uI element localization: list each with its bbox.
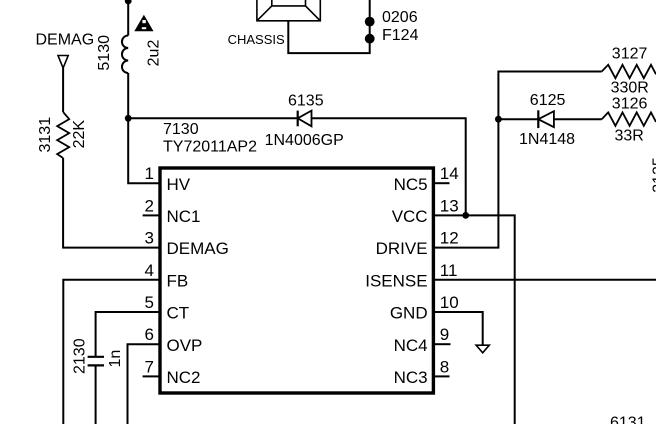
svg-text:10: 10 [440, 293, 459, 312]
inductor L5130 [122, 36, 128, 74]
svg-text:6: 6 [145, 325, 154, 344]
wire chassis to terminal line [288, 0, 369, 53]
svg-text:2130: 2130 [72, 338, 89, 374]
wire capacitor bottom to edge [95, 366, 97, 424]
svg-text:DEMAG: DEMAG [36, 32, 95, 49]
svg-text:11: 11 [440, 261, 458, 280]
wire DRIVE pin 12 up and right to resistor 3127 [435, 72, 602, 248]
svg-text:OVP: OVP [167, 336, 203, 355]
capacitor C2130 [88, 357, 104, 366]
svg-text:6135: 6135 [288, 93, 324, 110]
svg-text:VCC: VCC [392, 207, 428, 226]
svg-text:4: 4 [145, 261, 154, 280]
svg-text:NC2: NC2 [167, 368, 201, 387]
wire junction to diode 6125 [498, 118, 538, 120]
node junction inductor/diode/pin1 [125, 115, 132, 122]
svg-text:3125: 3125 [651, 157, 656, 193]
svg-text:F124: F124 [382, 27, 419, 44]
pin 14 [435, 182, 450, 184]
svg-text:33R: 33R [615, 128, 644, 145]
svg-text:14: 14 [440, 164, 459, 183]
svg-text:1: 1 [145, 164, 154, 183]
pin 7 [143, 375, 159, 377]
svg-text:HV: HV [167, 175, 191, 194]
node junction VCC pin13 [462, 212, 469, 219]
svg-text:3: 3 [145, 229, 154, 248]
wire ISENSE pin 11 to right edge [435, 279, 656, 281]
wire HV net: junction right to diode 6135 and on to VCC drop [128, 118, 466, 215]
svg-text:330R: 330R [611, 80, 649, 97]
svg-text:9: 9 [440, 325, 449, 344]
svg-text:5: 5 [145, 293, 154, 312]
svg-text:22K: 22K [71, 120, 88, 149]
wire GND pin 10 down to ground [435, 312, 483, 345]
svg-text:13: 13 [440, 196, 459, 215]
svg-text:5130: 5130 [96, 35, 113, 71]
IC U7130 box [160, 168, 433, 393]
wire diode 6125 to resistor 3126 [554, 118, 602, 120]
wire junction down to pin 1 [128, 118, 158, 183]
svg-text:6125: 6125 [530, 92, 566, 109]
wire inductor bottom to junction [127, 73, 129, 118]
svg-text:NC1: NC1 [167, 207, 201, 226]
svg-text:3127: 3127 [612, 46, 648, 63]
svg-text:2u2: 2u2 [146, 40, 163, 67]
svg-text:1n: 1n [107, 350, 124, 368]
diode D6125 [538, 110, 554, 128]
svg-text:NC5: NC5 [394, 175, 428, 194]
svg-text:NC3: NC3 [394, 368, 428, 387]
warning triangle symbol [134, 15, 153, 31]
svg-text:1N4006GP: 1N4006GP [265, 132, 344, 149]
pin 2 [143, 214, 159, 216]
node junction diode 6125 / drive net [495, 116, 502, 123]
svg-text:TY72011AP2: TY72011AP2 [163, 139, 257, 156]
wire top vertical into inductor [127, 0, 129, 36]
chassis connector symbol [257, 0, 320, 21]
svg-text:CHASSIS: CHASSIS [228, 32, 285, 47]
svg-text:7: 7 [145, 357, 154, 376]
resistor R3127 [602, 65, 656, 78]
svg-text:3131: 3131 [37, 117, 54, 153]
svg-text:1N4148: 1N4148 [519, 131, 575, 148]
node DEMAG arrow [58, 56, 68, 69]
svg-text:12: 12 [440, 229, 459, 248]
svg-text:8: 8 [440, 357, 449, 376]
terminal F124 [365, 34, 375, 44]
svg-text:DEMAG: DEMAG [167, 239, 229, 258]
terminal dot at top of inductor line [125, 0, 132, 4]
svg-text:DRIVE: DRIVE [376, 239, 428, 258]
terminal 0206 [365, 17, 375, 27]
wire FB pin 4 down to bottom edge [63, 280, 158, 424]
resistor R3126 [602, 112, 656, 125]
resistor R3131 [57, 112, 69, 158]
svg-text:3126: 3126 [612, 96, 648, 113]
svg-text:NC4: NC4 [394, 336, 428, 355]
svg-text:GND: GND [390, 304, 428, 323]
wire VCC pin 13 to right drop [435, 215, 515, 424]
pin 8 [435, 375, 450, 377]
wire OVP pin 6 down to bottom edge [128, 344, 159, 424]
pin 9 [435, 343, 451, 345]
diode D6135 [298, 111, 312, 127]
wire resistor 3131 down to pin 3 DEMAG [63, 158, 158, 248]
svg-text:6131: 6131 [610, 415, 646, 424]
wire CT pin 5 to capacitor [96, 312, 159, 356]
svg-text:7130: 7130 [163, 121, 199, 138]
ground symbol [476, 345, 489, 353]
svg-text:CT: CT [167, 304, 190, 323]
svg-text:FB: FB [167, 271, 189, 290]
wire arrow to resistor 3131 [62, 68, 64, 112]
svg-text:ISENSE: ISENSE [365, 271, 427, 290]
svg-text:2: 2 [145, 196, 154, 215]
svg-text:0206: 0206 [382, 9, 418, 26]
